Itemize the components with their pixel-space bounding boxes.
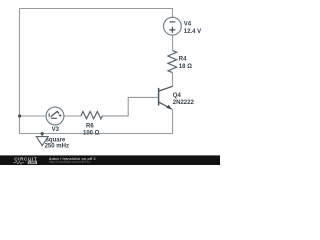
junction node ground (41, 132, 44, 135)
resistor R4 (168, 51, 177, 73)
footer bar (0, 155, 220, 165)
wire left vertical (19, 9, 21, 134)
wire V3 to R6 (64, 115, 81, 117)
svg-text:LAB: LAB (29, 161, 36, 165)
transistor Q4 (159, 86, 173, 109)
svg-text:R4: R4 (179, 56, 187, 62)
svg-text:V3: V3 (52, 127, 60, 133)
svg-text:http://circuitlab.com/c/4r67x: http://circuitlab.com/c/4r67x (49, 160, 91, 164)
svg-text:2N2222: 2N2222 (173, 100, 195, 106)
svg-text:12.4 V: 12.4 V (184, 29, 201, 35)
label V4 value (184, 22, 201, 36)
svg-text:18 Ω: 18 Ω (179, 64, 192, 70)
wire base (102, 97, 159, 116)
svg-text:R6: R6 (86, 124, 94, 130)
ground (36, 134, 48, 146)
source V3 square (46, 107, 64, 125)
svg-text:250 mHz: 250 mHz (45, 144, 69, 150)
wire left to V3 (20, 115, 47, 117)
wire V4 top stub (172, 9, 174, 18)
resistor R6 (81, 112, 103, 119)
svg-text:square: square (46, 137, 66, 143)
junction node left (18, 114, 21, 117)
footer text (49, 156, 97, 164)
svg-text:V4: V4 (184, 22, 192, 28)
wire ground rail bottom (20, 133, 174, 135)
voltage source V4 (164, 17, 182, 35)
wire emitter down (172, 109, 174, 133)
logo circuitlab (13, 157, 37, 165)
svg-text:100 Ω: 100 Ω (83, 130, 100, 136)
wire top rail (20, 8, 174, 10)
label R6 value (83, 124, 100, 137)
label Q4 type (173, 93, 195, 106)
wire R4 to collector (172, 73, 174, 87)
svg-text:Q4: Q4 (173, 93, 182, 99)
wire V4 to R4 (172, 35, 174, 51)
label R4 value (179, 56, 192, 70)
label V3 value (45, 127, 69, 149)
